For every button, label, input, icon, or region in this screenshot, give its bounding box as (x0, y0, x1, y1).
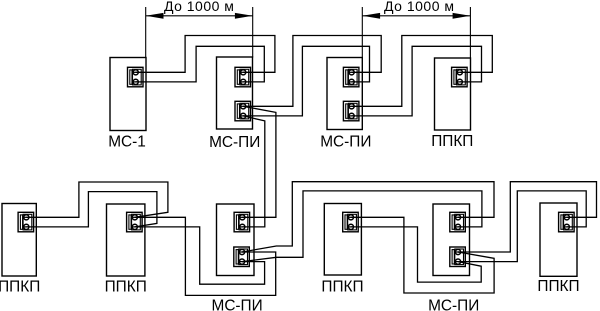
device box ППКП (bottom row 4th) (321, 204, 363, 296)
svg-text:ППКП: ППКП (431, 133, 473, 150)
dimension extension line left 2 (361, 7, 363, 58)
terminal block ППКП4 (top row) (452, 67, 468, 87)
terminal block МС-ПИ2 top port (235, 67, 251, 87)
svg-text:ППКП: ППКП (105, 278, 147, 295)
terminal block МС-ПИ center top port (234, 212, 250, 232)
terminal screws of ППКП6 (bottom) (564, 215, 571, 230)
terminal block МС-ПИ2 bottom port (235, 101, 251, 121)
dimension arrow line 2 (362, 13, 470, 19)
dimension extension line right 2 (469, 7, 471, 58)
terminal block МС-1 (128, 67, 144, 87)
wire ППКП2 to center МС-ПИ wire B (135, 227, 265, 284)
wire МС-1 to МС-ПИ2 wire A (136, 36, 275, 73)
terminal screws of МС-ПИ2 bottom port (240, 104, 247, 119)
wire center МС-ПИ to МС-ПИ5 wire B (242, 191, 482, 262)
device box МС-ПИ (top row 3rd) (320, 58, 371, 151)
device box ППКП (bottom row 2nd) (105, 204, 147, 295)
wire ППКП1 to ППКП2 wire B (26, 192, 157, 227)
dimension extension line left 1 (145, 7, 147, 58)
device box МС-1 (top row 1st) (108, 58, 146, 151)
wire МС-ПИ5 to ППКП6 wire A (458, 182, 597, 252)
svg-text:До 1000 м: До 1000 м (384, 0, 454, 14)
svg-text:МС-ПИ: МС-ПИ (212, 298, 263, 311)
terminal screws of МС-ПИ center bottom port (239, 249, 246, 264)
terminal screws of ППКП4 (bottom row) (348, 215, 355, 230)
terminal block ППКП4 (bottom row) (343, 212, 359, 232)
terminal block ППКП2 (bottom) (127, 212, 143, 232)
terminal block МС-ПИ3 bottom port (343, 101, 359, 121)
wire МС-ПИ2 drop to center МС-ПИ wire B (242, 116, 264, 227)
device box МС-ПИ (bottom row 5th) (428, 204, 479, 311)
wire center МС-ПИ to МС-ПИ5 wire A (242, 182, 494, 252)
device box МС-ПИ (bottom center) (212, 204, 263, 311)
wire МС-ПИ3 to ППКП4 wire A (352, 36, 493, 107)
terminal screws of МС-ПИ center top port (239, 215, 246, 230)
wire МС-ПИ5 to ППКП6 wire B (458, 191, 586, 262)
dimension arrow line 1 (146, 13, 253, 19)
svg-text:ППКП: ППКП (0, 279, 40, 296)
terminal block ППКП6 (bottom) (559, 212, 575, 232)
terminal screws of МС-ПИ3 bottom port (348, 104, 355, 119)
svg-text:МС-ПИ: МС-ПИ (428, 298, 479, 311)
terminal block ППКП1 (bottom) (18, 212, 33, 232)
svg-text:ППКП: ППКП (321, 278, 363, 295)
terminal screws of ППКП1 (bottom) (23, 215, 30, 230)
svg-text:МС-1: МС-1 (108, 133, 146, 150)
terminal screws of МС-1 (132, 70, 139, 85)
svg-text:До 1000 м: До 1000 м (164, 0, 234, 14)
terminal screws of МС-ПИ5 bottom port (455, 249, 462, 264)
terminal block МС-ПИ5 bottom port (450, 247, 466, 267)
wire ППКП4 to МС-ПИ5 wire B (351, 227, 481, 282)
wire ППКП4 to МС-ПИ5 wire A (351, 217, 494, 293)
terminal screws of ППКП4 (top row) (457, 70, 464, 85)
terminal block МС-ПИ center bottom port (234, 247, 250, 267)
svg-text:МС-ПИ: МС-ПИ (320, 133, 371, 150)
device box МС-ПИ (top row 2nd) (209, 57, 260, 151)
device box ППКП (bottom row 1st) (0, 204, 40, 296)
device box ППКП (bottom row 6th) (537, 203, 579, 295)
svg-text:ППКП: ППКП (537, 278, 579, 295)
wire ППКП2 to center МС-ПИ wire A (135, 217, 276, 295)
wire МС-1 to МС-ПИ2 wire B (136, 46, 265, 82)
dimension extension line right 1 (252, 7, 254, 58)
terminal screws of МС-ПИ3 top port (348, 70, 355, 85)
terminal screws of МС-ПИ2 top port (240, 70, 247, 85)
svg-text:МС-ПИ: МС-ПИ (209, 134, 260, 151)
terminal screws of ППКП2 (bottom) (132, 215, 139, 230)
wire МС-ПИ2 to МС-ПИ3 wire B (243, 46, 369, 116)
device box ППКП (top row 4th) (431, 58, 473, 150)
terminal block МС-ПИ5 top port (450, 212, 466, 232)
terminal screws of МС-ПИ5 top port (455, 215, 462, 230)
wire МС-ПИ2 drop to center МС-ПИ wire A (242, 106, 276, 217)
wire МС-ПИ3 to ППКП4 wire B (352, 46, 482, 116)
wire МС-ПИ2 to МС-ПИ3 wire A (243, 36, 381, 107)
terminal block МС-ПИ3 top port (343, 67, 359, 87)
wire ППКП1 to ППКП2 wire A (26, 182, 168, 217)
